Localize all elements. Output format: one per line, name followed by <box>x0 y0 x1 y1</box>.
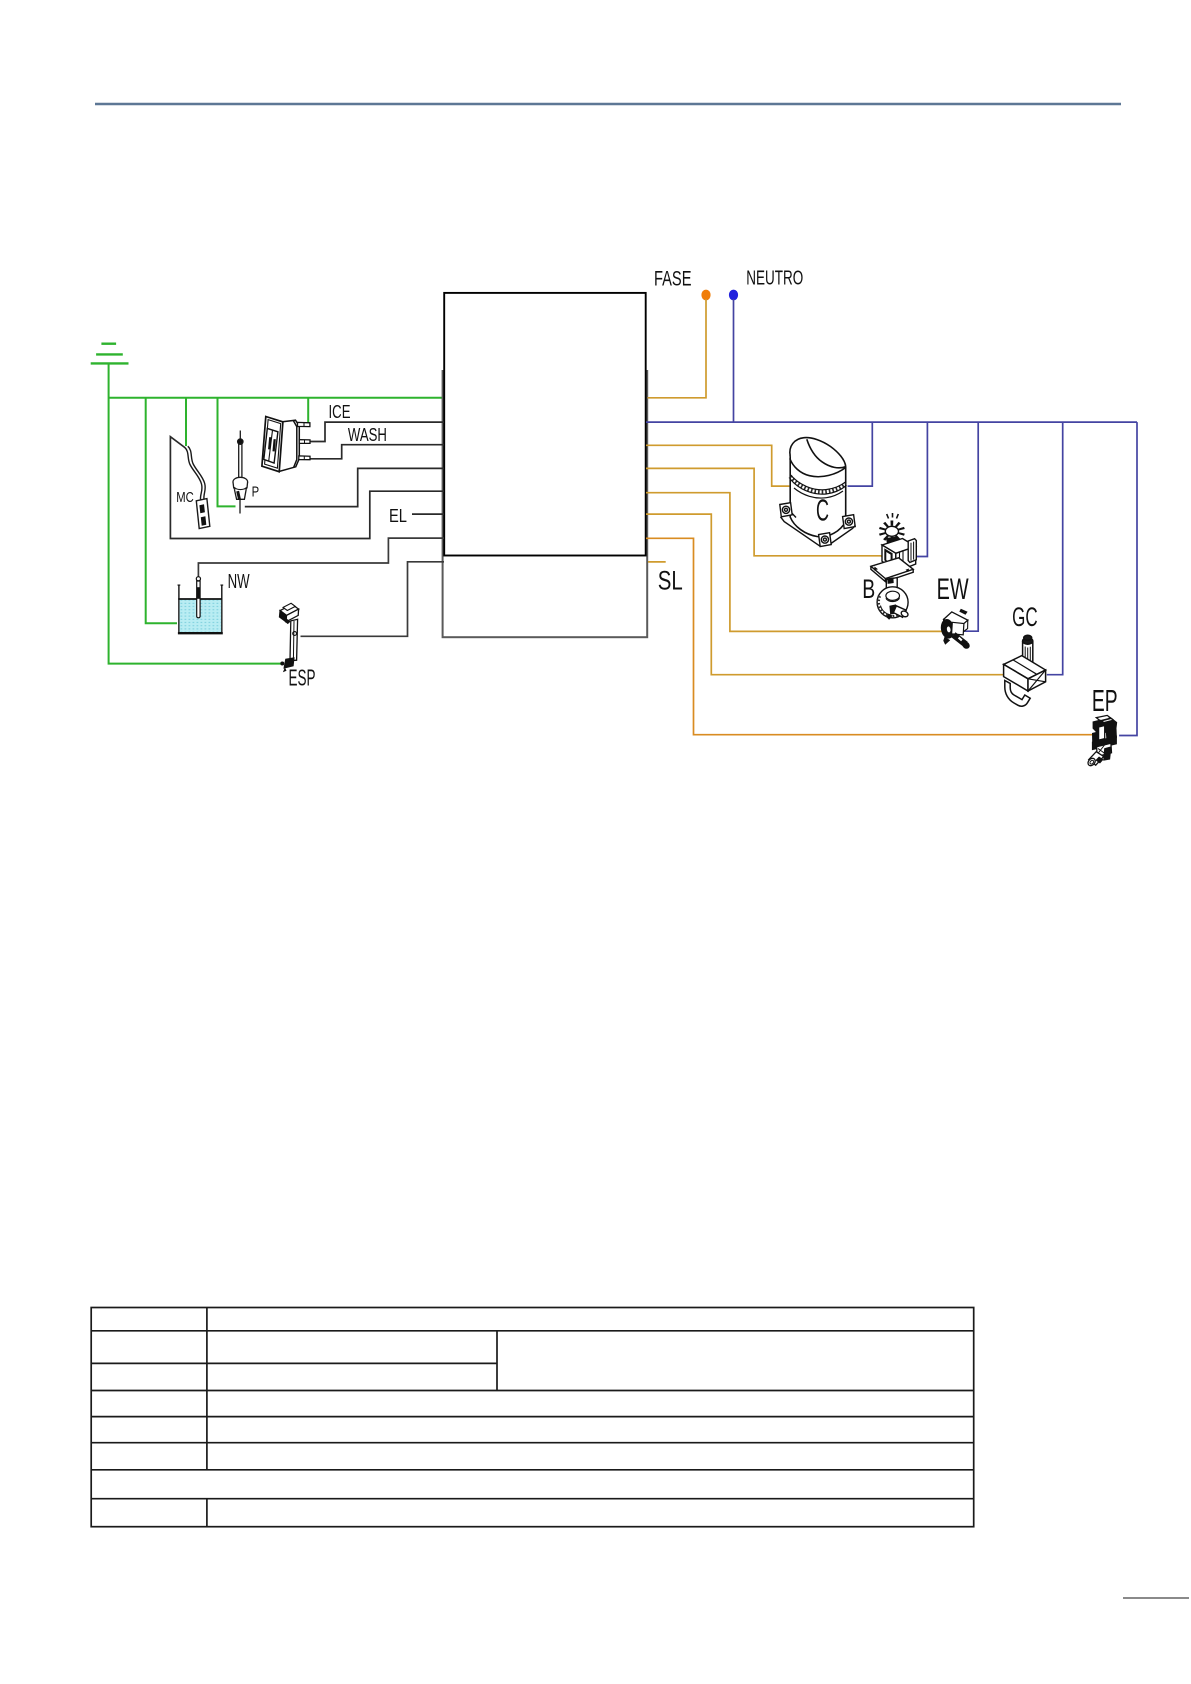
control box <box>444 293 646 556</box>
svg-text:B: B <box>862 574 875 604</box>
svg-text:P: P <box>252 484 260 501</box>
wire ICE <box>310 422 444 441</box>
switch ICE/WASH <box>262 417 310 472</box>
ground <box>91 344 129 364</box>
wire green to beaker <box>146 398 177 623</box>
wire blue to EP <box>1119 422 1137 735</box>
footer rule <box>1123 1597 1189 1599</box>
wire SL stub <box>648 561 666 563</box>
wire MC <box>170 437 444 539</box>
wire green to MC <box>185 398 187 446</box>
compressor C <box>780 438 855 547</box>
wire orange to compressor <box>646 445 789 486</box>
svg-text:C: C <box>816 493 829 528</box>
wire P probe <box>245 468 444 506</box>
wire ESP <box>301 562 445 637</box>
svg-text:EL: EL <box>389 506 407 526</box>
svg-text:NW: NW <box>228 571 250 593</box>
svg-text:EW: EW <box>937 573 969 606</box>
valve EP <box>1087 715 1118 767</box>
wire FASE <box>648 299 707 398</box>
wire orange to GC <box>646 514 1010 675</box>
wire ground drop <box>109 363 282 663</box>
valve EW <box>940 609 970 650</box>
pump B <box>871 513 916 620</box>
wire blue bus <box>646 421 1137 423</box>
wire green to P probe <box>218 398 236 507</box>
wire orange to EP <box>646 538 1094 734</box>
wire orange to EW <box>646 493 943 632</box>
wire green to switch <box>307 398 309 424</box>
valve GC <box>1004 635 1046 706</box>
wire NEUTRO drop <box>733 299 735 422</box>
box rear gray rectangle <box>443 371 648 637</box>
FASE dot <box>701 290 710 301</box>
svg-text:ESP: ESP <box>289 665 316 691</box>
top header rule <box>95 103 1121 105</box>
beaker NW <box>178 577 224 634</box>
breaker ESP <box>280 603 299 672</box>
wire green bus <box>109 397 444 399</box>
svg-text:SL: SL <box>658 566 683 596</box>
table <box>91 1308 974 1527</box>
svg-text:GC: GC <box>1012 602 1038 632</box>
wire EL stub <box>412 513 444 515</box>
svg-text:NEUTRO: NEUTRO <box>746 268 803 290</box>
wire orange to pump B <box>646 468 886 560</box>
probe P <box>233 431 248 514</box>
svg-text:WASH: WASH <box>348 425 387 445</box>
NEUTRO dot <box>729 290 738 301</box>
wire blue to GC <box>1047 422 1063 675</box>
svg-text:FASE: FASE <box>654 268 692 291</box>
wire blue to compressor <box>848 422 873 486</box>
thermostat MC <box>185 446 210 528</box>
wire blue to pump B <box>916 422 927 556</box>
svg-text:MC: MC <box>176 489 194 506</box>
svg-text:ICE: ICE <box>329 402 351 422</box>
wire NW <box>198 538 444 577</box>
wire WASH <box>309 445 444 459</box>
wire blue to EW <box>964 422 979 631</box>
svg-text:EP: EP <box>1092 683 1118 718</box>
node ESP-green <box>280 662 284 666</box>
